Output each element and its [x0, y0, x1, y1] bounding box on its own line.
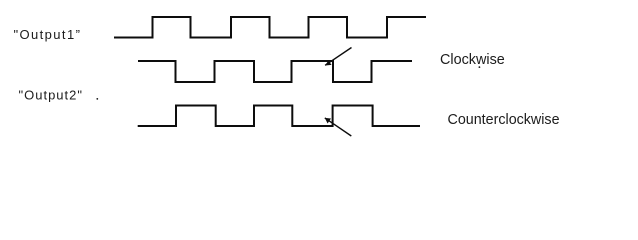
stray dot after Output2 label [96, 98, 98, 100]
svg-text:Counterclockwise: Counterclockwise [448, 112, 560, 128]
stray dot below Clockwise label [479, 66, 481, 68]
waveform Output2 clockwise case (channel B leads) [138, 61, 412, 82]
arrow pointing to clockwise waveform edge [325, 48, 351, 66]
waveform Output2 counterclockwise case (channel B lags) [138, 106, 420, 127]
svg-text:"Output1”: "Output1” [14, 27, 82, 42]
waveform Output1 (channel A) [114, 17, 426, 38]
svg-text:"Output2": "Output2" [19, 87, 84, 102]
arrow pointing to counterclockwise waveform edge [325, 118, 352, 136]
svg-text:Clockwise: Clockwise [440, 52, 505, 68]
